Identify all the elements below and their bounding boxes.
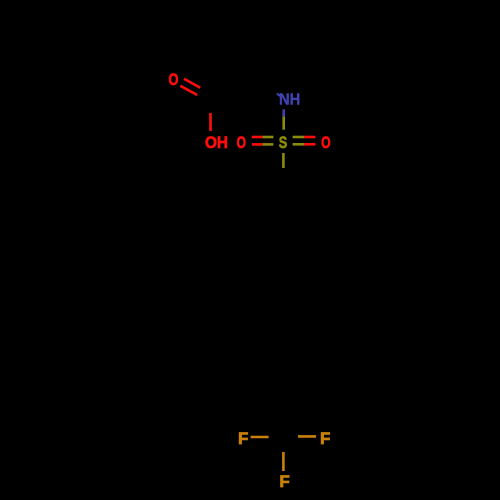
svg-text:F: F <box>279 472 289 491</box>
bond C=O upper line (red half) <box>184 79 200 88</box>
bond C-F right (gold half) <box>298 435 316 438</box>
bond S-C(ring) olive half <box>282 153 285 168</box>
bond N-S olive half <box>282 117 285 130</box>
svg-text:NH: NH <box>279 92 300 109</box>
svg-text:O: O <box>169 70 179 89</box>
bond C-OH (red half) <box>209 113 212 131</box>
bond S=O right lower line <box>293 143 304 146</box>
bond C-F bottom (gold half) <box>282 452 285 471</box>
bond C-N stub (blue remnant) <box>277 94 280 97</box>
bond C-F left (gold half) <box>251 436 269 439</box>
bond S=O left upper line <box>252 136 263 139</box>
bond S=O left lower line <box>252 143 263 146</box>
svg-text:O: O <box>237 133 247 152</box>
bond S=O right upper line <box>293 136 304 139</box>
svg-text:OH: OH <box>205 133 228 152</box>
svg-text:F: F <box>238 429 248 448</box>
svg-text:O: O <box>321 133 331 152</box>
svg-text:S: S <box>279 133 288 152</box>
svg-text:F: F <box>320 429 330 448</box>
bond C=O lower line (red half) <box>180 86 197 95</box>
bond N-S blue half <box>282 109 285 116</box>
